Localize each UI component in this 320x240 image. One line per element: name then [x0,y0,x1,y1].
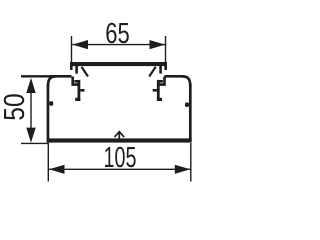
svg-text:50: 50 [0,93,31,120]
body bottom [47,138,192,142]
arrowhead 105 left [49,165,65,174]
right wall nub [185,103,189,107]
body outer corner right [183,76,191,86]
body clip rail left [74,80,84,101]
dimension line 50 [21,86,48,143]
arrowhead 50 up [26,78,35,93]
arrowhead 65 right [150,40,166,49]
dimension text 50 (rotated) [0,93,31,120]
lid clip flap right [149,67,156,77]
body left wall [47,85,50,141]
body right wall [189,85,192,141]
body shoulder step left [73,77,80,85]
body top rim left [50,75,72,78]
body shoulder step right [157,77,164,85]
arrowhead 50 down [26,128,35,143]
body rim extension line left (50 dim) [21,75,52,77]
center up arrow marker [115,132,125,140]
dimension text 105 [104,142,137,174]
lid clip flap left [82,67,89,77]
body clip rail right [153,80,163,101]
arrowhead 105 right [175,165,191,174]
left wall nub [49,101,53,105]
arrowhead 65 left [72,40,88,49]
dimension line 65 [72,36,166,63]
body top rim right [165,75,185,78]
body outer corner left [48,76,56,86]
lid / cover profile [70,62,167,74]
dimension text 65 [105,18,130,50]
dimension line 105 [48,143,191,182]
